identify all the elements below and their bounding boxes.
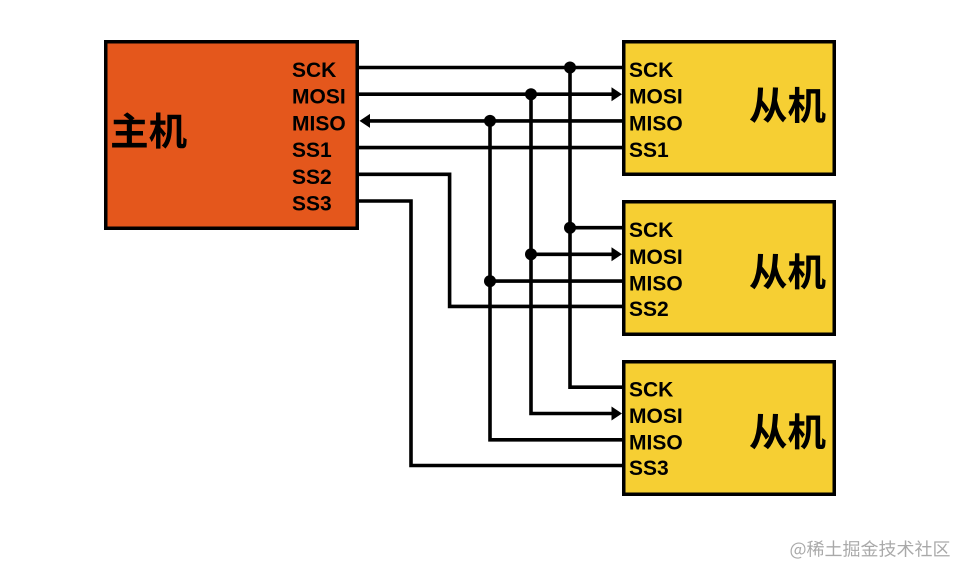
slave 3 box 从机 <box>624 362 835 495</box>
svg-text:SS1: SS1 <box>292 139 332 162</box>
slave 3 label 从机 <box>750 413 826 449</box>
svg-text:SS3: SS3 <box>629 457 669 480</box>
arrow MOSI into slave2 <box>612 247 623 261</box>
slave 2 label 从机 <box>750 253 826 289</box>
arrow MOSI into slave3 <box>612 407 623 421</box>
wire SCK bus vertical + slave3 branch <box>570 68 623 388</box>
slave 2 box 从机 <box>624 202 835 335</box>
svg-text:MISO: MISO <box>629 431 683 454</box>
svg-text:SS2: SS2 <box>292 166 332 189</box>
wire MISO bus vertical + slave3 branch <box>490 121 623 440</box>
svg-text:MOSI: MOSI <box>629 86 683 109</box>
svg-text:MISO: MISO <box>629 112 683 135</box>
junction MOSI at slave1 row <box>525 88 537 100</box>
junction SCK at slave2 row <box>564 222 576 234</box>
svg-text:SCK: SCK <box>629 219 673 242</box>
svg-text:MOSI: MOSI <box>629 246 683 269</box>
wire MISO slave1 to master <box>369 119 623 123</box>
arrow MISO into master <box>360 114 371 128</box>
wire SCK master to slave1 <box>358 66 623 70</box>
junction SCK at slave1 row <box>564 62 576 74</box>
master label 主机 <box>112 112 187 148</box>
svg-text:SCK: SCK <box>629 59 673 82</box>
slave 1 label 从机 <box>750 87 826 123</box>
wire SCK branch to slave2 <box>570 226 623 230</box>
wire SS3 master to slave3 <box>358 201 623 466</box>
wire SS1 master to slave1 <box>358 146 623 150</box>
arrow MOSI into slave1 <box>612 87 623 101</box>
svg-text:MISO: MISO <box>629 273 683 296</box>
master box 主机 <box>106 42 358 229</box>
svg-text:SS1: SS1 <box>629 139 669 162</box>
wire MISO branch to slave2 <box>490 279 623 283</box>
junction MISO at slave1 row <box>484 115 496 127</box>
junction MOSI at slave2 row <box>525 248 537 260</box>
watermark @稀土掘金技术社区 <box>791 540 950 558</box>
svg-text:MISO: MISO <box>292 112 346 135</box>
svg-text:SS3: SS3 <box>292 193 332 216</box>
wire MOSI bus vertical + slave3 branch <box>531 94 613 413</box>
svg-text:MOSI: MOSI <box>629 405 683 428</box>
svg-text:SCK: SCK <box>292 59 336 82</box>
wire MOSI master to slave1 <box>358 92 613 96</box>
wire SS2 master to slave2 <box>358 174 623 306</box>
svg-text:SCK: SCK <box>629 379 673 402</box>
svg-text:SS2: SS2 <box>629 298 669 321</box>
svg-text:MOSI: MOSI <box>292 86 346 109</box>
wire MOSI branch to slave2 <box>531 253 613 257</box>
junction MISO at slave2 row <box>484 275 496 287</box>
slave 1 box 从机 <box>624 42 835 175</box>
